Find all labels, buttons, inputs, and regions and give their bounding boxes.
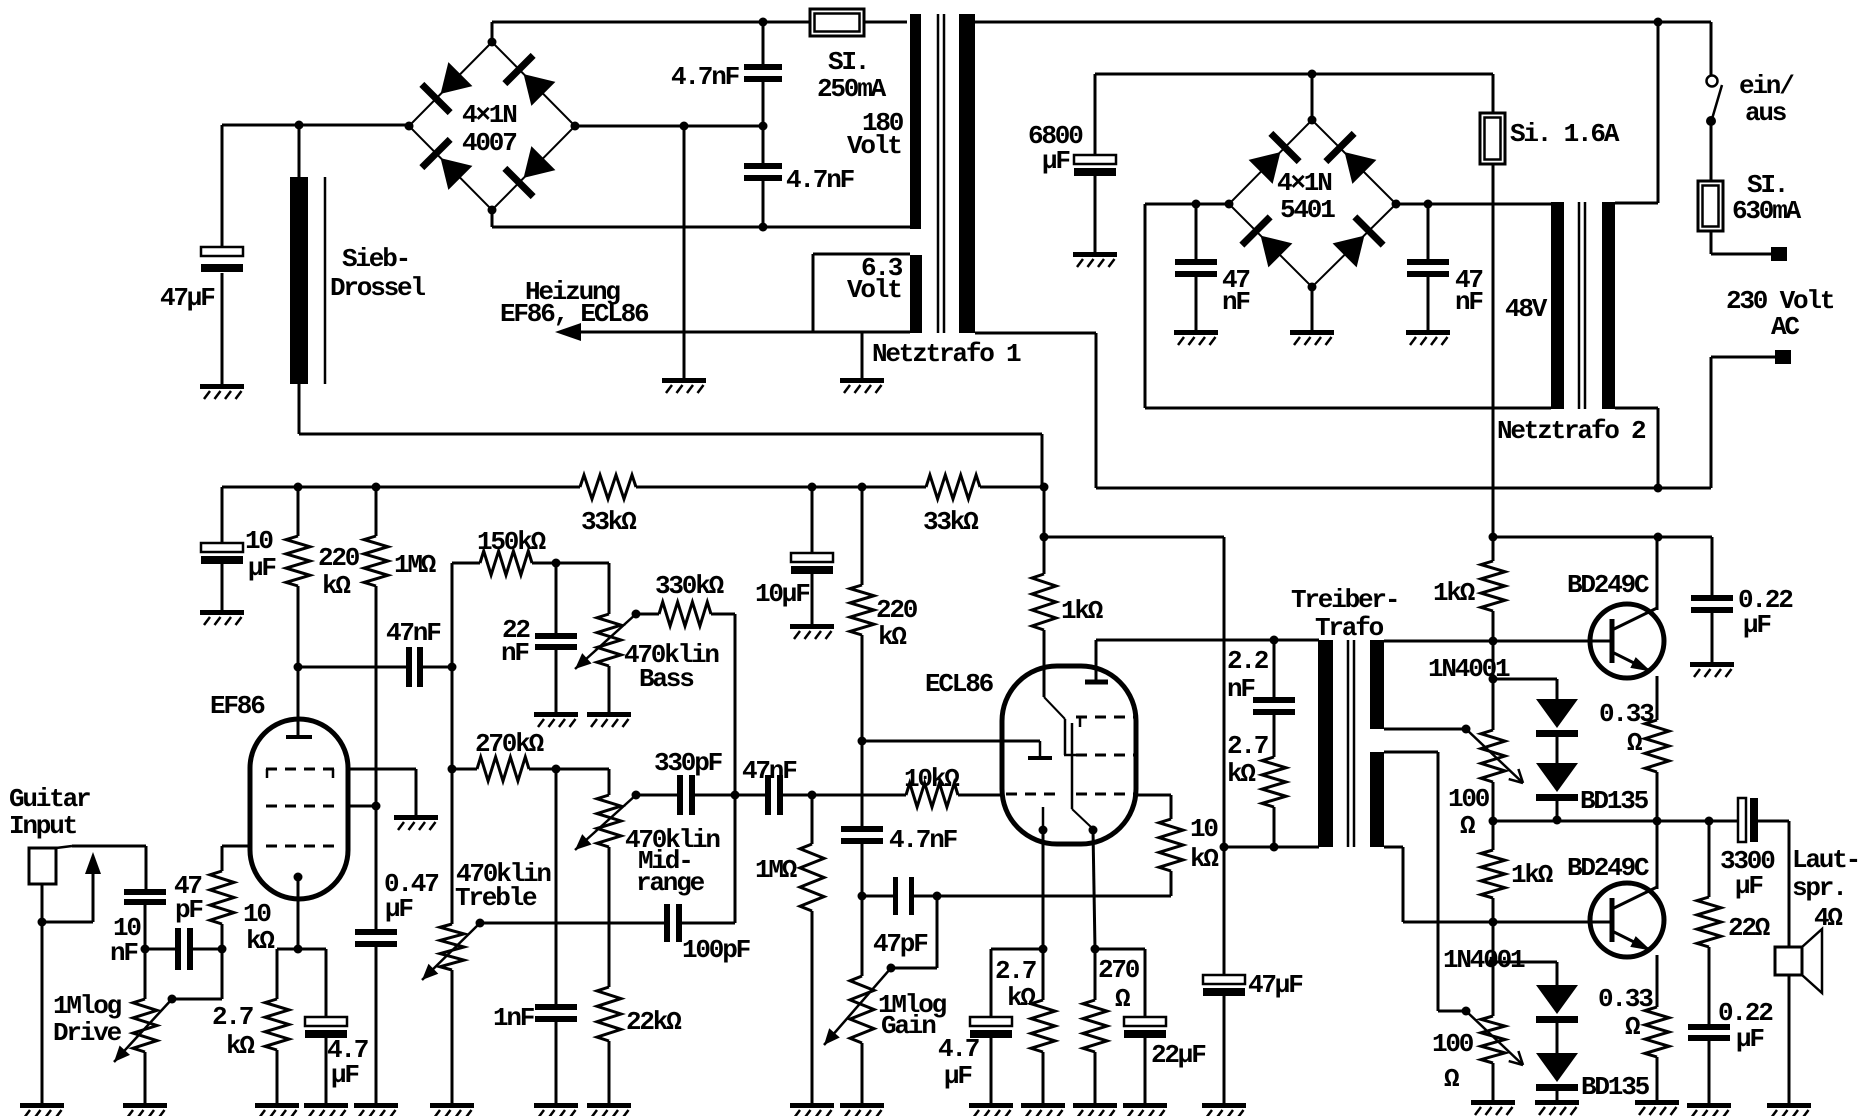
wire 22nF top lead [555,563,558,633]
wire upper base run y=641 [1384,640,1612,643]
wire fuse to 180V winding [864,21,907,24]
wire 1k to base node [1492,611,1495,641]
svg-text:BD249C: BD249C [1567,570,1649,600]
junction snubber 2.2nF top [1270,636,1279,645]
capacitor 1nF treble shunt [535,1004,577,1010]
svg-text:range: range [636,868,705,898]
wire lower emitter down [1656,955,1659,1007]
wire treble pot bottom [451,970,454,1103]
svg-text:SI.: SI. [828,47,868,77]
transformer T1 core line right [943,14,946,333]
wire T2 primary bottom [1615,407,1658,410]
wire mix node to 47nF-2 [735,794,765,797]
wire 10k to tube [958,794,1002,797]
junction tone stack input [448,663,457,672]
wire fuse Si1.6A vertical [1492,74,1495,537]
wire 4.7nF to gain node [861,844,864,896]
wire 150k right [532,562,609,565]
junction pentode cathode [1089,826,1098,835]
ECL86 g3 dashed [1076,716,1134,719]
junction bass wiper [632,610,641,619]
svg-text:100: 100 [1448,784,1490,814]
wire 6.3V top terminal [813,253,910,256]
wire plate node to coupling cap [298,666,406,669]
diode 1N4001 upper A [1536,699,1578,728]
wire 150k left [452,562,480,565]
wire 47nF-b top lead [1427,204,1430,259]
ground under 47nF A [1174,330,1218,335]
svg-text:EF86, ECL86: EF86, ECL86 [500,299,649,329]
resistor 22k mid leg [597,987,621,1041]
wire diode chain to output [1556,800,1559,820]
capacitor 47nF snubber A [1175,259,1217,265]
diode BD135 lower B [1536,1053,1578,1082]
wire 47nF-a bottom lead [1195,277,1198,330]
transformer T1 core line left [937,14,940,333]
ECL86 pentode plate bar [1085,680,1108,685]
transformer T1 6.3V heater winding bar [910,255,922,333]
svg-text:47µF: 47µF [160,283,215,313]
svg-text:5401: 5401 [1280,195,1335,225]
wire 2.7k to ground [276,1050,279,1103]
svg-text:Ω: Ω [1444,1064,1459,1094]
svg-text:2.7: 2.7 [995,956,1036,986]
transformer T2 core line right [1584,202,1587,409]
svg-text:spr.: spr. [1792,873,1846,903]
capacitor 47nF coupling 1 [406,647,412,687]
wire AC left down [1144,204,1147,408]
wire treble wiper run y=923 [480,922,664,925]
capacitor 6800uF filter [1074,155,1116,164]
wire bridge2 top stub [1311,74,1314,120]
potentiometer Gain wiper arrow [824,968,891,1045]
diode 1N4001 lower A [1536,985,1578,1014]
wire jack tip diagonal [56,846,72,848]
wire Treiber primary B+ drop [1223,537,1226,847]
bridge rectifier B1 diamond outline [409,42,575,210]
junction 22nF top [552,559,561,568]
wire 230V return down [1095,333,1098,488]
resistor 10k grid stopper [210,871,234,924]
junction jack ground [38,918,47,927]
transistor BD249C upper circle [1590,604,1664,678]
wire drive pot top stub [144,949,147,999]
ECL86 triode plate bar [1028,756,1052,760]
wire mains terminal 2 [1711,356,1775,359]
wire tone stack left vertical [451,563,454,924]
svg-text:47nF: 47nF [742,756,797,786]
resistor 0.33 upper emitter [1645,720,1669,772]
ECL86 triode grid dashed [1006,793,1058,796]
svg-text:47µF: 47µF [1248,970,1303,1000]
wire snubber lower top lead [762,126,765,163]
wire 47uF bottom lead [221,273,224,384]
svg-text:220: 220 [318,543,360,573]
ECL86 triode cathode stub [1042,807,1045,830]
resistor 150k [480,551,532,575]
wire arrow stem to jack ground [42,921,93,924]
trimmer 100R upper [1481,730,1505,782]
wire 10k grid stopper top stub [221,846,224,871]
svg-text:kΩ: kΩ [878,622,906,652]
wire 47pF bridge right [193,948,222,951]
junction treble wiper [476,919,485,928]
capacitor 3300uF output coupling [1738,798,1746,842]
wire 10k-fb top to g1 [1170,795,1173,819]
BD249C lower collector [1612,887,1657,909]
wire 6.3V ground stem [861,332,864,378]
svg-text:kΩ: kΩ [322,571,350,601]
junction triode plate node [858,737,867,746]
wire bridge2 AC left [1145,203,1229,206]
wire trimmer bottom to diode chain [1493,820,1557,823]
node B1 AC top [488,38,497,47]
junction choke top [295,121,304,130]
wire 47uF top lead [221,125,224,247]
capacitor 4.7nF coupling [841,826,883,832]
wire 1nF chain vertical [555,769,558,1004]
resistor 270 pentode cathode [1083,1000,1107,1052]
wire T2 primary top [1615,202,1658,205]
wire 4.7uF ECL86 ground lead [990,1038,993,1103]
potentiometer 1Mlog Gain [850,976,874,1043]
wire 1nF to ground [555,1022,558,1103]
capacitor 10uF decoupling 2 [791,553,833,562]
svg-text:Drive: Drive [53,1018,122,1048]
ECL86 screen diagonal [1044,697,1065,719]
wire 22R drop [1708,821,1711,897]
junction 270k left [448,765,457,774]
wire choke bottom to B+ run [298,384,301,434]
capacitor 47pF bright [175,928,181,970]
wire jack ground drop [41,922,44,1103]
svg-text:4.7nF: 4.7nF [889,825,958,855]
diode B2 bottom-right (1N5401) [1330,214,1385,269]
svg-text:1MΩ: 1MΩ [394,550,436,580]
svg-text:47nF: 47nF [386,618,441,648]
node B2 AC right [1392,200,1401,209]
capacitor 47uF filter [201,247,243,256]
svg-text:Volt: Volt [847,131,901,161]
BD249C upper collector [1612,608,1657,630]
wire to primary bottom [1224,846,1319,849]
wire heater run y=331 [581,331,910,334]
svg-text:330kΩ: 330kΩ [655,571,724,601]
svg-text:µF: µF [248,553,276,583]
wire preamp B+ y=537 [1044,536,1224,539]
ground 0.47uF [354,1103,398,1108]
wire 330pF to mix node [695,794,735,797]
wire cathode box [277,948,326,951]
diode B2 bottom-left (1N5401) [1239,214,1294,269]
ground 2.7k ECL86 [1021,1103,1065,1108]
wire upper emitter down [1656,676,1659,720]
ground EF86 4.7uF [304,1103,348,1108]
wire 47pF-2 right [914,895,937,898]
node B1 AC bottom [488,206,497,215]
diode B1 top-left (1N4007) [419,60,474,115]
switch pole dot [1706,116,1716,126]
junction gain wiper [887,964,896,973]
capacitor 47uF driver supply [1203,975,1245,984]
wire 22R to 0.22uF [1708,947,1711,1024]
svg-text:µF: µF [1042,146,1070,176]
junction EF86 cathode [294,873,303,882]
wire output B+ y=537 [1493,536,1712,539]
wire 2.7k to bottom [1273,807,1276,847]
ECL86 screen vertical [1064,719,1067,755]
ground 0.22uF lower [1687,1103,1731,1108]
resistor 1M ECL86 grid leak [800,844,824,911]
wire 1k into tube [1043,630,1046,697]
wire mix vertical x=735 [734,614,737,923]
svg-text:10: 10 [243,899,271,929]
wire 230V switch drop [1710,22,1713,75]
wire wiper up to 10k node [221,949,224,999]
terminal mains N [1775,350,1791,364]
resistor 1k ECL86 screen [1032,574,1056,630]
junction 1k lower base [1489,918,1498,927]
ground 1M ECL86 [790,1103,834,1108]
wire AC left bottom to winding [1145,407,1551,410]
wire speaker drop [1788,821,1791,947]
junction output mid [1653,817,1662,826]
wire 220k-1 top stub [297,487,300,536]
wire 1k upper stubs [1492,537,1495,561]
wire lower collector up [1656,821,1659,889]
resistor 10k ECL86 grid stopper [906,783,958,807]
wire 47pF-2 left [862,895,893,898]
junction 1k upper base [1489,637,1498,646]
ground 22k [587,1103,631,1108]
svg-text:250mA: 250mA [817,74,887,104]
svg-text:Netztrafo 2: Netztrafo 2 [1497,416,1646,446]
wire drive pot bottom [144,1052,147,1103]
diode B1 top-right (1N4007) [502,53,557,108]
wire to lower trimmer wiper [1438,1010,1466,1013]
svg-text:630mA: 630mA [1732,196,1802,226]
wire mid pot drop [608,769,611,795]
wire between diodes upper [1556,736,1559,763]
junction 48V B+ [1489,533,1498,542]
wire bass wiper to 330k [636,613,659,616]
wire trimmer to junction [1492,782,1495,821]
junction 230V top [1654,18,1663,27]
svg-text:Ω: Ω [1460,811,1475,841]
svg-text:0.33: 0.33 [1599,699,1654,729]
wire T1 primary top to 230V line [975,21,1711,24]
wire bridge2 AC right [1396,203,1551,206]
wire 0.33 to output line [1656,772,1659,821]
junction 220k top [294,483,303,492]
svg-text:4×1N: 4×1N [1277,168,1331,198]
wire 270 top stub [1094,949,1097,1000]
svg-text:2.7: 2.7 [212,1002,253,1032]
wire AC bottom y=226 to winding [492,226,910,229]
wire snubber upper bottom lead [762,82,765,126]
wire lower sec top drop [1437,752,1440,1011]
junction lower diode feed [1489,958,1498,967]
wire speaker to ground [1788,975,1791,1103]
transformer T2 48V secondary winding bar [1551,202,1564,409]
svg-text:100: 100 [1432,1029,1474,1059]
svg-text:1N4001: 1N4001 [1428,654,1510,684]
capacitor 4.7nF snubber lower [744,163,782,169]
svg-text:0.33: 0.33 [1598,984,1653,1014]
svg-text:nF: nF [501,638,529,668]
svg-text:Sieb-: Sieb- [342,244,409,274]
trimmer 100R lower wiper arrow [1466,1011,1523,1065]
ground bass pot [587,712,631,717]
wire choke top lead [298,125,301,177]
ECL86 pentode cathode diagonal [1072,809,1091,827]
wire base to lower diode feed [1492,922,1495,962]
wire B+ node to bridge1 DC+ (y=125) [222,124,409,127]
capacitor 22nF bass [535,633,577,639]
ground under 47nF B [1406,330,1450,335]
wire snubber cap top lead [762,22,765,64]
junction 22R top [1705,817,1714,826]
svg-text:10: 10 [1190,814,1218,844]
wire ECL86 grid leak down [811,795,814,844]
svg-text:150kΩ: 150kΩ [477,527,546,557]
wire output line y=821 [1557,820,1738,823]
svg-text:22Ω: 22Ω [1728,913,1770,943]
svg-text:10: 10 [245,526,273,556]
svg-text:AC: AC [1771,312,1799,342]
transformer T2 core line left [1578,202,1581,409]
junction triode cathode split [1039,945,1048,954]
EF86 grid3 dashed [266,768,334,771]
junction snubber mid [759,122,768,131]
wire EF86 plate lead [297,667,300,737]
junction mix node [731,791,740,800]
wire 1k lower to base [1492,898,1495,922]
ground lower diodes [1535,1100,1579,1105]
wire lower diode feed horizontal [1493,961,1557,964]
ground 0.22uF upper [1690,662,1734,667]
potentiometer Bass wiper arrow [575,614,636,669]
svg-text:4×1N: 4×1N [462,100,516,130]
capacitor 22uF pentode cathode bypass [1124,1017,1166,1026]
wire B+ rail y=487 [222,486,580,489]
EF86 grid1 dashed [266,845,334,848]
svg-text:BD135: BD135 [1581,1072,1650,1102]
wire triode cathode drop [1042,830,1045,949]
svg-text:4Ω: 4Ω [1814,903,1842,933]
wire 270k left stub [452,768,477,771]
wire lower secondary bottom [1384,846,1403,849]
svg-text:270kΩ: 270kΩ [475,729,544,759]
svg-text:1kΩ: 1kΩ [1433,578,1475,608]
resistor 33k B+ dropper 2 [926,475,980,499]
wire diode chain stub [1556,679,1559,699]
wire trimmer upper body [1492,679,1495,730]
wire to 4.7uF ECL86 [990,949,993,1017]
wire T1 primary bottom return [975,332,1096,335]
choke core line [324,177,327,384]
wire lower sec bottom drop [1402,847,1405,922]
junction 10uF-2 rail [808,483,817,492]
wire 6.3V bracket down [812,254,815,332]
wire bass pot bottom [608,666,611,712]
capacitor 0.22uF lower zobel [1688,1024,1730,1030]
svg-text:1N4001: 1N4001 [1443,945,1525,975]
svg-text:nF: nF [110,938,138,968]
svg-text:10kΩ: 10kΩ [904,764,959,794]
wire snubber lower bottom lead [762,181,765,227]
capacitor 10nF input [124,889,166,895]
ground input jack [20,1103,64,1108]
ground gain pot [840,1103,884,1108]
trimmer 100R lower [1481,1016,1505,1063]
svg-text:ECL86: ECL86 [925,669,994,699]
svg-text:Treble: Treble [455,883,537,913]
svg-text:100pF: 100pF [682,935,751,965]
wire 47nF-b bottom lead [1427,277,1430,330]
wire terminal 2 down to return [1710,357,1713,488]
wire gain wiper links [936,896,939,968]
wire 10uF-2 top lead [811,487,814,553]
ECL86 g2 tick [1064,754,1080,757]
wire gain pot bottom [861,1043,864,1103]
wire 22uF ground lead [1144,1038,1147,1103]
ground 22uF [1123,1103,1167,1108]
ground drive pot [123,1103,167,1108]
svg-text:kΩ: kΩ [226,1031,254,1061]
junction trimmer upper wiper [1462,725,1471,734]
wire pentode cathode box [1095,948,1145,951]
resistor 220k EF86 plate load [286,536,310,586]
svg-text:nF: nF [1455,287,1483,317]
wire AC top y=22 to fuse [492,21,810,24]
wire 47uF-2 lead [1223,847,1226,975]
svg-text:4.7nF: 4.7nF [786,165,855,195]
junction snubber bottom [1270,843,1279,852]
junction trimmer bottom [1489,817,1498,826]
wire 22k to ground [608,1041,611,1103]
wire lower base run y=922 [1403,921,1612,924]
wire jack sleeve down [41,884,44,922]
svg-text:Trafo: Trafo [1315,613,1384,643]
wire pentode g1 exit [1136,794,1171,797]
junction pentode cathode split [1091,945,1100,954]
wire B1 bottom corner down [491,210,494,227]
ground 47uF 2 [1202,1103,1246,1108]
wire 0.22uF upper drop [1711,537,1714,595]
svg-text:Ω: Ω [1627,728,1642,758]
transformer Treiber secondary lower bar [1370,752,1384,847]
capacitor 47nF coupling 2 [765,775,771,815]
svg-text:4007: 4007 [462,128,516,158]
resistor 33k B+ dropper 1 [580,475,636,499]
wire pentode plate lead [1095,640,1098,682]
wire 1k lower stubs [1492,821,1495,850]
svg-text:33kΩ: 33kΩ [923,507,978,537]
svg-text:4.7nF: 4.7nF [671,62,740,92]
wire DC- ground stem [683,126,686,378]
tube ECL86 envelope [1002,666,1136,844]
BD249C lower base bar [1610,898,1615,942]
svg-text:µF: µF [331,1060,359,1090]
junction mid wiper [632,791,641,800]
wire gain wiper horizontal [891,967,937,970]
wire pentode cathode drop [1093,830,1095,949]
svg-text:Bass: Bass [639,664,694,694]
svg-text:1nF: 1nF [493,1003,535,1033]
wire 220k-1 to plate node [297,586,300,667]
junction 47pF/wiper [933,892,942,901]
